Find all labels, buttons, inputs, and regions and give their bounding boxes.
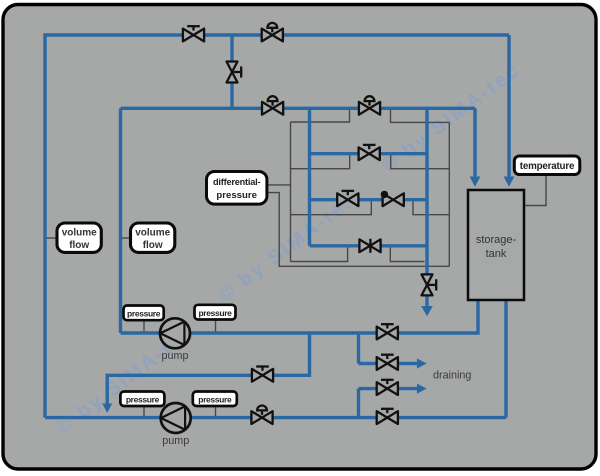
wire: manifold left vertical x310 [308, 108, 311, 246]
arrow merging into line D [102, 404, 112, 413]
wire: left vertical x121 down to pump1 line [119, 108, 122, 333]
instrument box: temperature [514, 156, 580, 175]
valve V1 on top header [183, 26, 204, 41]
arrow draining row C [417, 384, 427, 394]
volume flow 1 stem [45, 237, 59, 239]
wire: three-way branch vertical x232 [230, 35, 233, 108]
wire: draining row C [359, 387, 419, 390]
svg-text:pressure: pressure [198, 308, 232, 318]
arrow below three-way valve x427 [421, 306, 433, 316]
wire: return line y374 [107, 333, 309, 404]
valve V12 control valve on line D [251, 406, 272, 425]
valve draining row B [377, 355, 398, 370]
row1 permeate right branch [391, 110, 450, 122]
wire: header drop to tank (x475) [473, 108, 476, 177]
instrument box: pressure 3 [120, 392, 164, 407]
row2 permeate right branch [391, 155, 450, 169]
svg-text:volume: volume [135, 228, 170, 239]
pressure 4 stem [215, 406, 217, 416]
wire: bottom line D [45, 416, 506, 419]
instrument box: pressure 1 [124, 306, 164, 321]
svg-text:pump: pump [162, 435, 189, 447]
pressure 2 stem [215, 319, 217, 332]
svg-text:flow: flow [143, 240, 163, 251]
right permeate spine [448, 122, 450, 266]
svg-text:differential-: differential- [213, 177, 261, 187]
row4 permeate right branch [390, 247, 424, 262]
row4 permeate left branch [291, 247, 348, 262]
valve V7 row3 left [337, 191, 358, 206]
instrument box: volume flow 2 [131, 223, 175, 252]
instrument box: pressure 4 [193, 392, 237, 407]
arrow into tank top right [504, 177, 515, 187]
wire: main loop left vertical + top header [45, 35, 509, 418]
valve V5 control valve row1 [359, 96, 380, 115]
valve V11 on return line [252, 367, 273, 382]
storage tank [468, 190, 524, 300]
instrument box: differential-pressure [207, 172, 267, 205]
permeate/instrument thin black lines [45, 110, 546, 416]
differential-pressure tap line 1 [267, 184, 291, 186]
row2 permeate left branch [291, 155, 350, 169]
wire: feed to tank top (right drop from header) [507, 35, 510, 178]
wire: module row 3 [310, 198, 428, 201]
valve V2 control valve on top header [262, 23, 283, 42]
svg-text:volume: volume [62, 228, 97, 239]
valve V13 on line D [377, 409, 398, 424]
left permeate spine [290, 122, 292, 262]
wire: module row 2 [310, 152, 428, 155]
arrow draining row B [417, 358, 427, 368]
wire: tank bottom drop x506 [504, 300, 507, 418]
arrow into tank top left [470, 177, 481, 187]
volume flow 2 stem [121, 237, 132, 239]
row3 permeate left branch [291, 201, 372, 215]
valve V10 on pump1 line [377, 324, 398, 339]
wire: draining row B [359, 362, 419, 365]
instrument box: pressure 2 [195, 305, 236, 320]
valve V6 row2 [359, 145, 380, 160]
wire: draining branch vertical lower x358.5 [357, 389, 360, 418]
row1 permeate left branch [291, 110, 350, 122]
pressure 3 stem [143, 406, 145, 416]
valve V14 vertical before drain arrow [421, 274, 436, 295]
differential-pressure tap line 2 [267, 193, 449, 267]
wire: draining branch vertical upper x358.5 [357, 333, 360, 364]
wire: module row 4 [310, 244, 428, 247]
svg-text:pressure: pressure [216, 190, 257, 201]
valve V3 three-way vertical [226, 62, 241, 83]
row3 permeate right branch [413, 201, 449, 215]
svg-text:pressure: pressure [127, 309, 161, 319]
valve draining row C [377, 380, 398, 395]
wire: pump1 line to tank bottom [121, 300, 479, 333]
svg-text:tank: tank [486, 248, 507, 260]
pump P1 [160, 318, 190, 362]
wire: manifold right vertical x427 [425, 108, 428, 307]
blue piping [45, 35, 509, 418]
svg-text:flow: flow [69, 240, 89, 251]
svg-text:storage-: storage- [476, 234, 517, 246]
pump P2 [161, 403, 191, 447]
instrument box: volume flow 1 [57, 223, 101, 252]
temperature sensor connector [524, 175, 546, 206]
blue arrowheads [102, 177, 514, 413]
valve V4 control valve on second header [262, 96, 283, 115]
valve V8 row3 right with dot [381, 191, 404, 207]
svg-text:pressure: pressure [198, 395, 232, 405]
svg-text:pressure: pressure [126, 395, 160, 405]
watermark [52, 59, 524, 439]
valve V9 row4 with centre bar [359, 239, 380, 253]
svg-text:pump: pump [161, 350, 188, 362]
pressure 1 stem [143, 319, 145, 332]
wire: second header y108 [121, 107, 476, 110]
svg-text:temperature: temperature [520, 161, 575, 172]
svg-text:draining: draining [433, 370, 471, 382]
